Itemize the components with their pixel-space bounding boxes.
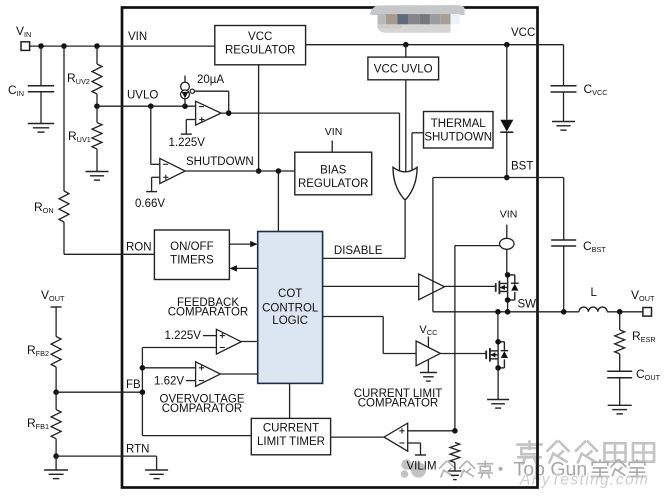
op-amp overvoltage comparator [142, 367, 195, 369]
wire BST rail to SW [433, 311, 498, 313]
block CURRENT LIMIT TIMER [251, 418, 330, 454]
svg-text:VIN: VIN [500, 209, 518, 221]
svg-text:COMPARATOR: COMPARATOR [168, 306, 249, 318]
svg-text:BIAS: BIAS [320, 165, 347, 177]
junction shutdown net [256, 168, 262, 174]
svg-text:VCC: VCC [511, 27, 535, 39]
wire UVLO comparator output [221, 112, 399, 114]
wire UVLO pin [97, 105, 122, 107]
ground CVCC [552, 121, 575, 123]
driver high-side [419, 274, 445, 300]
svg-text:RON: RON [126, 242, 152, 254]
junction [61, 43, 67, 49]
resistor RFB2 [51, 337, 61, 368]
inductor L [538, 311, 580, 313]
wire VCC UVLO to OR gate [405, 80, 407, 172]
svg-text:ON/OFF: ON/OFF [170, 241, 213, 253]
wire FB pin [56, 391, 122, 393]
op-amp current limit comparator [384, 423, 408, 451]
resistor current sense [450, 443, 460, 463]
diode bootstrap VCC-BST [506, 45, 508, 120]
junction UVLO divider [94, 103, 100, 109]
junction HS drain [505, 272, 511, 278]
wire overvoltage comp output [220, 373, 257, 375]
svg-text:THERMAL: THERMAL [431, 118, 487, 130]
junction RTN node [53, 453, 59, 459]
ground COUT [608, 404, 632, 406]
wire COT to timers arrow [236, 267, 258, 269]
svg-text:COMPARATOR: COMPARATOR [162, 403, 243, 415]
transistor low-side NMOS [497, 312, 499, 342]
wire BST [433, 177, 538, 179]
wire COT to current limit timer [289, 383, 291, 418]
ground RFB1 [55, 456, 57, 470]
svg-text:1.62V: 1.62V [154, 376, 184, 388]
wire SW [498, 311, 538, 313]
svg-text:SW: SW [518, 299, 537, 311]
ground LS driver [427, 360, 429, 373]
junction shutdown branch [148, 103, 154, 109]
junction current sense [452, 428, 458, 434]
current source 20uA [184, 76, 186, 83]
junction LS source [495, 365, 501, 371]
ground RUV1 [86, 171, 109, 173]
reference 1.225V UVLO [186, 119, 195, 121]
block THERMAL SHUTDOWN [424, 112, 494, 149]
svg-text:COMPARATOR: COMPARATOR [358, 397, 439, 409]
junction [38, 43, 44, 49]
junction SW b [505, 309, 511, 315]
svg-text:VIN: VIN [128, 31, 147, 43]
block COT CONTROL LOGIC [258, 232, 323, 384]
junction FB to OV comp [140, 365, 146, 371]
junction VOUT [617, 309, 623, 315]
svg-text:VILIM: VILIM [407, 460, 437, 472]
wire COT to HS driver [323, 285, 419, 287]
junction 20uA [182, 103, 188, 109]
wire VIN rail [30, 45, 122, 47]
svg-text:1.225V: 1.225V [169, 137, 206, 149]
wire feedback comp output [241, 341, 258, 343]
svg-text:VCC UVLO: VCC UVLO [374, 64, 433, 76]
resistor RON [63, 46, 65, 191]
wire RTN pin [56, 455, 157, 457]
svg-text:SHUTDOWN: SHUTDOWN [186, 156, 254, 168]
wire 20uA feedback [194, 90, 228, 92]
wire BST supply down [432, 178, 434, 312]
current source sense [500, 238, 514, 249]
svg-text:REGULATOR: REGULATOR [298, 178, 369, 190]
svg-text:VCC: VCC [248, 31, 272, 43]
block VCC REGULATOR [215, 26, 306, 65]
svg-text:BST: BST [511, 161, 533, 173]
wire thermal shutdown to OR gate [412, 132, 424, 134]
junction FB node [53, 389, 59, 395]
wire FB to feedback comparator [142, 347, 216, 349]
junction 20uA feedback [226, 110, 232, 116]
svg-text:CURRENT: CURRENT [263, 423, 319, 435]
resistor RUV2 [96, 46, 98, 64]
watermark text jiayu jiance big [518, 442, 542, 464]
svg-text:REGULATOR: REGULATOR [225, 45, 296, 57]
svg-text:LIMIT TIMER: LIMIT TIMER [257, 436, 325, 448]
junction [94, 43, 100, 49]
wire VCC rail [306, 44, 538, 46]
watermark blob top [370, 5, 465, 33]
resistor RFB1 [55, 392, 57, 409]
ground LS source [497, 368, 499, 400]
wire shutdown to COT logic [277, 171, 279, 232]
svg-text:20µA: 20µA [197, 74, 224, 86]
block ON/OFF TIMERS [122, 253, 154, 255]
watermark text shiyanshi [592, 460, 609, 477]
ground current sense [448, 470, 461, 472]
wire FB net [122, 391, 142, 393]
junction FB pin [140, 389, 146, 395]
svg-text:RTN: RTN [126, 444, 149, 456]
wire COT to LS driver [323, 316, 384, 318]
svg-text:FB: FB [126, 379, 141, 391]
op-amp UVLO comparator [196, 101, 222, 125]
block VCC UVLO [405, 45, 407, 57]
wire OR input from UVLO comp [399, 113, 401, 172]
svg-text:CONTROL: CONTROL [262, 303, 319, 315]
junction VCC UVLO tap [403, 42, 409, 48]
wire OR output to DISABLE [404, 200, 406, 259]
wire timers to COT arrow [229, 243, 251, 245]
wire LS gate [440, 353, 486, 355]
svg-text:1.225V: 1.225V [165, 330, 202, 342]
svg-text:LOGIC: LOGIC [272, 315, 308, 327]
wire VCC REGULATOR bias down [258, 65, 260, 171]
wire HS gate [445, 285, 496, 287]
reference VILIM [408, 442, 421, 444]
svg-text:L: L [591, 287, 598, 299]
watermark logo bubbles [401, 459, 426, 478]
wire current limit comp output [331, 436, 384, 438]
watermark text gongzhonghao [440, 462, 455, 477]
resistor RUV1 [96, 106, 98, 122]
wire L to VOUT [607, 311, 643, 313]
junction HS source [505, 297, 511, 303]
svg-text:TIMERS: TIMERS [170, 255, 214, 267]
IC boundary box [122, 8, 538, 488]
capacitor CBST [538, 177, 564, 179]
capacitor CIN [40, 46, 42, 85]
gate OR shutdown [393, 167, 417, 199]
svg-text:COT: COT [278, 288, 302, 300]
junction BST [504, 175, 510, 181]
junction SW a [495, 309, 501, 315]
svg-text:SHUTDOWN: SHUTDOWN [424, 132, 492, 144]
op-amp shutdown comparator [150, 106, 152, 164]
driver low-side [416, 341, 440, 366]
wire current sense tap [455, 245, 500, 247]
reference 0.66V [152, 176, 160, 178]
junction LS drain [495, 339, 501, 345]
wire RON pin [64, 253, 122, 255]
svg-text:0.66V: 0.66V [135, 198, 165, 210]
junction bias tap [276, 168, 282, 174]
ground CIN [28, 123, 55, 125]
wire VIN to VCC REGULATOR [122, 45, 215, 47]
svg-text:UVLO: UVLO [127, 90, 158, 102]
wire current sense to comp [408, 430, 455, 432]
svg-text:VIN: VIN [325, 126, 343, 138]
op-amp feedback comparator [216, 329, 241, 354]
transistor high-side NMOS [498, 281, 500, 295]
junction CBST-SW [561, 309, 567, 315]
capacitor CVCC [538, 44, 564, 46]
capacitor COUT [607, 370, 632, 372]
ground RTN internal [156, 456, 158, 470]
wire UVLO net [122, 105, 196, 107]
svg-text:DISABLE: DISABLE [334, 245, 383, 257]
resistor RESR [619, 312, 621, 330]
junction bootstrap diode tap [504, 42, 510, 48]
wire FB to current limit timer [142, 435, 251, 437]
